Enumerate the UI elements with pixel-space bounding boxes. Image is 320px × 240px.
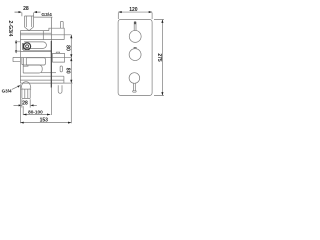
body internal line y39.6: [20, 39, 64, 41]
middle extension line to dim: [51, 57, 71, 59]
mid band line y57.5: [20, 57, 51, 59]
dim line 80-100: [23, 114, 50, 116]
upper mid box: [26, 58, 45, 65]
body internal line y33.4: [20, 32, 51, 34]
right vertical dim line: [70, 35, 72, 83]
ledge lines below cartridge 1: [20, 50, 51, 51]
svg-text:28: 28: [23, 6, 29, 12]
svg-text:80: 80: [65, 68, 71, 74]
leader of bottom G3/4: [12, 86, 20, 90]
dimension 275: dim line: [161, 20, 163, 96]
body internal line y35 / extension to right dim: [20, 34, 71, 36]
knob 3 circle: [129, 73, 140, 84]
boss 3 right edge: [63, 76, 65, 83]
bottom port threads: [25, 89, 28, 98]
top inlet port chamfer: [25, 27, 34, 31]
svg-text:80-100: 80-100: [28, 109, 43, 114]
dimension 28 top: dim line right with arrow: [35, 11, 40, 13]
body top edge: [20, 30, 49, 32]
narrow left box: [22, 58, 24, 65]
leader underline of G3/4 top: [34, 16, 53, 18]
boss 2 box: [52, 53, 64, 62]
arrows of right dims: [70, 35, 72, 38]
left dim extension lines: [15, 42, 21, 51]
boss 2 bump: [56, 52, 59, 53]
ledge y72.7: [41, 72, 56, 74]
trim plate: [118, 19, 152, 95]
dim line 153: [20, 122, 71, 124]
cartridge 1 capsule: [24, 42, 46, 49]
bottom port base line: [21, 88, 31, 90]
knob 1 stem: [134, 22, 136, 31]
extension line y83.1: [64, 82, 73, 84]
cartridge 2 capsule: [23, 65, 42, 73]
svg-text:275: 275: [156, 53, 162, 62]
side outlet slot: [60, 66, 62, 72]
svg-text:80: 80: [65, 45, 71, 51]
top inlet port threads: [26, 16, 31, 27]
internal vertical x43.3: [42, 31, 44, 40]
knob 2 nub: [134, 47, 136, 49]
extension lines 120: [118, 13, 152, 19]
body internal line y76.2: [20, 75, 64, 77]
knob 1 circle: [129, 30, 141, 42]
left vertical dimension line: [15, 40, 17, 53]
cartridge 2 step: [23, 65, 28, 66]
extension lines 275: [154, 20, 164, 96]
dimension 28 top: dim line left with arrow: [15, 11, 21, 13]
body internal line y80.1: [20, 79, 64, 81]
bottom small outlet capsule: [58, 85, 62, 93]
knob 2 circle: [129, 49, 141, 61]
knob 3 stem: [134, 83, 136, 91]
bottom port body: [22, 88, 30, 99]
dim line 120: [118, 11, 152, 13]
body outline left edge: [19, 31, 21, 84]
extension lines 28 bottom: [22, 99, 30, 107]
extension line 80-100 left: [22, 106, 24, 115]
wall line extension thin: [50, 88, 52, 116]
dim line 28 bottom: [14, 104, 37, 106]
dimension 28 top: extension lines: [22, 13, 34, 17]
svg-text:28: 28: [22, 100, 28, 106]
svg-text:G3/4: G3/4: [2, 88, 12, 93]
svg-text:2-G3/4: 2-G3/4: [7, 20, 13, 36]
top inlet port: [25, 16, 34, 27]
left port stub: [13, 57, 20, 61]
top outlet box: [49, 28, 64, 39]
wall line dark: [50, 17, 52, 41]
knob 3 foot: [133, 91, 137, 92]
extension lines 153: [20, 84, 71, 124]
top outlet tube: [60, 22, 63, 29]
body bottom edge: [20, 82, 64, 84]
cartridge 1 ring inner: [26, 45, 29, 48]
bottom port dome: [21, 82, 31, 88]
cartridge 1 ring outer: [24, 43, 31, 50]
